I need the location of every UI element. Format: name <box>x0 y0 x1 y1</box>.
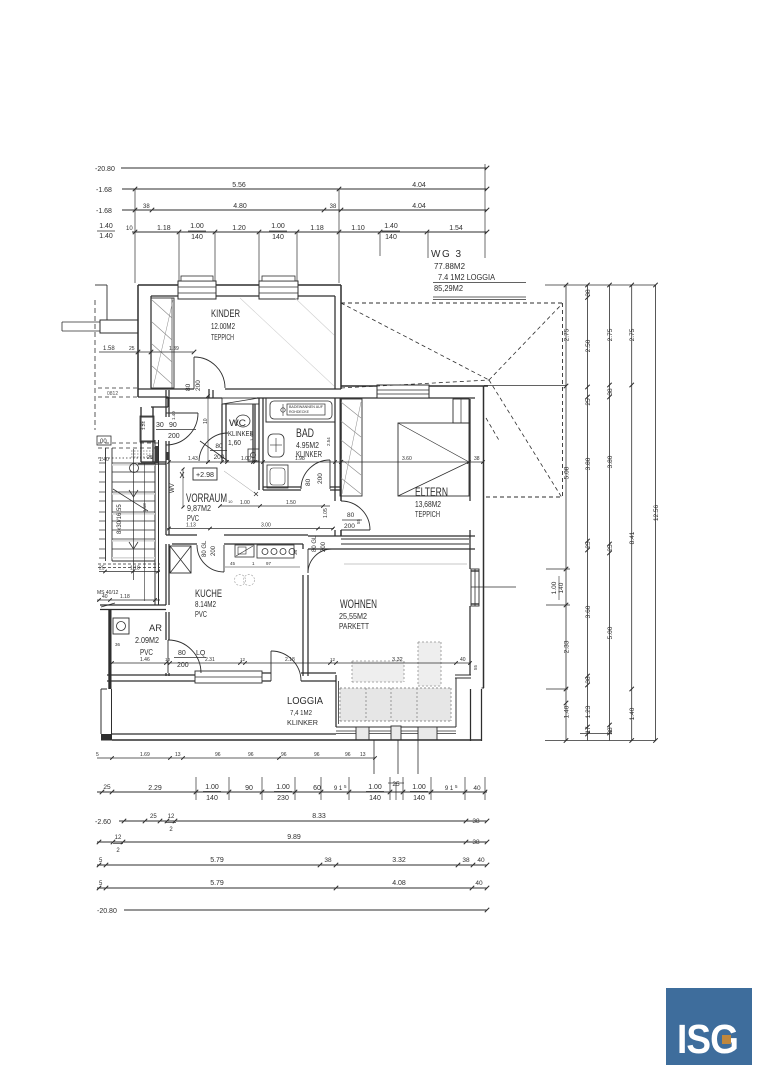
svg-text:1.24: 1.24 <box>141 421 146 430</box>
svg-text:ROHDECKE: ROHDECKE <box>289 410 310 414</box>
svg-text:MS 40/12: MS 40/12 <box>97 590 119 596</box>
svg-text:40: 40 <box>102 594 108 600</box>
svg-text:40: 40 <box>460 657 466 663</box>
svg-text:230: 230 <box>277 795 289 802</box>
svg-text:38: 38 <box>324 857 332 864</box>
svg-text:TEPPICH: TEPPICH <box>211 333 234 342</box>
svg-text:38: 38 <box>474 456 480 462</box>
svg-text:80: 80 <box>215 443 223 450</box>
svg-text:1.40: 1.40 <box>171 411 176 420</box>
svg-text:1 18: 1 18 <box>130 566 140 572</box>
svg-text:140: 140 <box>272 234 284 241</box>
svg-text:1.39: 1.39 <box>169 346 179 352</box>
svg-text:12.00M2: 12.00M2 <box>211 322 235 331</box>
svg-text:25: 25 <box>147 455 153 461</box>
svg-text:2.75: 2.75 <box>629 328 636 341</box>
svg-text:4.04: 4.04 <box>412 203 426 210</box>
svg-text:38: 38 <box>472 818 480 825</box>
svg-text:KINDER: KINDER <box>211 308 240 320</box>
svg-text:AR: AR <box>149 623 162 634</box>
svg-text:38: 38 <box>472 839 480 846</box>
svg-text:80 GL: 80 GL <box>202 540 208 557</box>
svg-text:80: 80 <box>178 650 186 657</box>
svg-text:WOHNEN: WOHNEN <box>340 599 377 611</box>
svg-text:1.05: 1.05 <box>323 508 329 518</box>
svg-text:4.08: 4.08 <box>392 880 406 887</box>
svg-text:1.00: 1.00 <box>368 784 382 791</box>
svg-text:3.80: 3.80 <box>585 457 592 470</box>
svg-text:2.75: 2.75 <box>564 328 571 341</box>
svg-text:-1.68: -1.68 <box>96 208 112 215</box>
svg-text:7.4 1M2 LOGGIA: 7.4 1M2 LOGGIA <box>438 273 496 282</box>
svg-text:-20.80: -20.80 <box>97 908 117 915</box>
svg-text:38: 38 <box>330 204 337 210</box>
svg-text:40: 40 <box>477 857 485 864</box>
svg-text:90: 90 <box>169 422 177 429</box>
svg-text:60: 60 <box>313 785 321 792</box>
svg-text:140: 140 <box>413 795 425 802</box>
svg-text:55: 55 <box>356 518 361 524</box>
svg-text:25: 25 <box>129 346 135 352</box>
svg-text:3.32: 3.32 <box>392 657 403 663</box>
svg-text:1.40: 1.40 <box>99 223 113 230</box>
svg-text:3.60: 3.60 <box>585 605 592 618</box>
svg-text:BAD: BAD <box>296 426 314 440</box>
svg-text:-20.80: -20.80 <box>95 166 115 173</box>
svg-text:-2.60: -2.60 <box>95 819 111 826</box>
svg-text:140: 140 <box>385 234 397 241</box>
svg-text:1.58: 1.58 <box>103 346 115 352</box>
svg-text:55: 55 <box>473 664 478 670</box>
svg-text:85,29M2: 85,29M2 <box>434 284 464 293</box>
svg-text:34: 34 <box>293 549 298 555</box>
svg-text:1.00: 1.00 <box>276 784 290 791</box>
svg-text:10: 10 <box>165 657 171 662</box>
svg-text:38: 38 <box>462 857 470 864</box>
svg-text:200: 200 <box>168 433 180 440</box>
svg-text:38: 38 <box>585 289 592 297</box>
svg-text:140: 140 <box>369 795 381 802</box>
svg-text:1.54: 1.54 <box>449 225 463 232</box>
svg-text:3.00: 3.00 <box>261 523 271 529</box>
svg-text:25,55M2: 25,55M2 <box>339 611 367 621</box>
svg-text:5.79: 5.79 <box>210 880 224 887</box>
svg-text:40: 40 <box>475 880 483 887</box>
svg-text:2.33: 2.33 <box>564 640 571 653</box>
svg-text:1.40: 1.40 <box>99 457 109 463</box>
svg-text:1.18: 1.18 <box>157 225 171 232</box>
svg-text:2.18: 2.18 <box>285 657 295 663</box>
svg-text:10: 10 <box>203 418 209 424</box>
svg-text:1.40: 1.40 <box>629 707 636 720</box>
svg-text:36: 36 <box>115 642 121 647</box>
svg-text:13: 13 <box>175 752 181 758</box>
svg-text:96: 96 <box>248 752 254 758</box>
svg-text:0812: 0812 <box>107 391 118 397</box>
svg-text:96: 96 <box>314 752 320 758</box>
svg-text:5.79: 5.79 <box>210 857 224 864</box>
svg-text:2.09M2: 2.09M2 <box>135 635 159 645</box>
svg-text:80 GL: 80 GL <box>312 535 318 552</box>
svg-text:13: 13 <box>360 752 366 758</box>
svg-text:3.60: 3.60 <box>402 456 412 462</box>
svg-text:12.56: 12.56 <box>653 504 660 521</box>
svg-text:1.43: 1.43 <box>188 456 198 462</box>
svg-text:45: 45 <box>230 561 236 566</box>
svg-text:PVC: PVC <box>187 513 199 523</box>
svg-text:2.31: 2.31 <box>205 657 215 663</box>
svg-text:13,68M2: 13,68M2 <box>415 499 441 509</box>
svg-text:9 1: 9 1 <box>445 786 454 792</box>
svg-text:1.00: 1.00 <box>271 223 285 230</box>
svg-text:1.13: 1.13 <box>186 523 196 529</box>
svg-text:25: 25 <box>103 784 111 791</box>
svg-text:KUCHE: KUCHE <box>195 588 222 600</box>
svg-text:8x30/16,55: 8x30/16,55 <box>117 504 123 534</box>
svg-text:1.18: 1.18 <box>120 594 130 600</box>
svg-text:200: 200 <box>211 545 217 556</box>
svg-text:-1.68: -1.68 <box>96 187 112 194</box>
svg-text:1.00: 1.00 <box>412 784 426 791</box>
svg-text:TEPPICH: TEPPICH <box>415 509 440 519</box>
svg-text:2.29: 2.29 <box>148 785 162 792</box>
svg-text:WG 3: WG 3 <box>431 249 463 260</box>
svg-text:BADEWANNEN AUF: BADEWANNEN AUF <box>289 405 323 409</box>
svg-text:1.40: 1.40 <box>384 223 398 230</box>
svg-text:1.46: 1.46 <box>140 657 150 663</box>
svg-text:10: 10 <box>228 499 233 504</box>
svg-text:LQ: LQ <box>196 650 206 657</box>
svg-text:1.20: 1.20 <box>232 225 246 232</box>
svg-text:12: 12 <box>240 657 246 662</box>
svg-text:38: 38 <box>143 204 150 210</box>
svg-text:1.50: 1.50 <box>286 500 296 506</box>
svg-text:10: 10 <box>126 226 133 232</box>
svg-text:+2.98: +2.98 <box>196 470 214 479</box>
svg-text:KLINKER: KLINKER <box>287 718 319 727</box>
svg-text:1.00: 1.00 <box>240 500 250 506</box>
svg-text:5: 5 <box>96 752 99 758</box>
svg-text:96: 96 <box>281 752 287 758</box>
svg-text:1.40: 1.40 <box>250 432 255 441</box>
svg-text:80: 80 <box>305 478 312 486</box>
svg-text:77.88M2: 77.88M2 <box>434 262 466 271</box>
svg-text:3.32: 3.32 <box>392 857 406 864</box>
svg-text:96: 96 <box>345 752 351 758</box>
svg-text:9 1: 9 1 <box>334 786 343 792</box>
svg-text:4.04: 4.04 <box>412 182 426 189</box>
svg-text:ELTERN: ELTERN <box>415 485 448 499</box>
svg-text:1.40: 1.40 <box>564 705 571 718</box>
svg-text:25: 25 <box>150 814 157 820</box>
svg-text:200: 200 <box>317 473 324 484</box>
svg-text:5.56: 5.56 <box>232 182 246 189</box>
svg-text:7,4 1M2: 7,4 1M2 <box>290 708 312 717</box>
svg-text:40: 40 <box>473 785 481 792</box>
svg-text:97: 97 <box>266 561 272 566</box>
svg-text:12: 12 <box>115 835 122 841</box>
svg-text:140: 140 <box>206 795 218 802</box>
svg-text:2.75: 2.75 <box>607 328 614 341</box>
svg-text:25: 25 <box>99 566 105 572</box>
svg-text:8.33: 8.33 <box>312 813 326 820</box>
svg-text:5.00: 5.00 <box>607 626 614 639</box>
svg-text:PVC: PVC <box>140 647 153 657</box>
svg-text:8.41: 8.41 <box>629 531 636 544</box>
svg-text:1,60: 1,60 <box>228 440 241 447</box>
svg-text:140: 140 <box>191 234 203 241</box>
svg-text:90: 90 <box>245 785 253 792</box>
svg-text:1.23: 1.23 <box>585 705 592 718</box>
svg-text:80: 80 <box>185 383 192 391</box>
svg-text:1.10: 1.10 <box>351 225 365 232</box>
svg-text:4.80: 4.80 <box>233 203 247 210</box>
svg-text:1.00: 1.00 <box>205 784 219 791</box>
svg-text:96: 96 <box>215 752 221 758</box>
svg-text:PVC: PVC <box>195 610 207 619</box>
svg-text:12: 12 <box>330 657 336 662</box>
svg-text:3.80: 3.80 <box>607 455 614 468</box>
svg-text:1.00: 1.00 <box>551 581 558 594</box>
svg-text:1.18: 1.18 <box>310 225 324 232</box>
svg-text:200: 200 <box>195 380 202 391</box>
svg-text:PARKETT: PARKETT <box>339 621 369 631</box>
svg-text:1.00: 1.00 <box>241 456 251 462</box>
svg-text:LOGGIA: LOGGIA <box>287 696 323 707</box>
svg-text:00: 00 <box>100 439 107 445</box>
svg-text:38: 38 <box>607 388 614 396</box>
svg-text:8.14M2: 8.14M2 <box>195 600 216 609</box>
svg-text:2.54: 2.54 <box>326 437 331 446</box>
svg-text:5.08: 5.08 <box>564 466 571 479</box>
svg-text:1.98: 1.98 <box>295 456 305 462</box>
svg-text:1.00: 1.00 <box>190 223 204 230</box>
svg-text:WC: WC <box>229 418 247 428</box>
svg-text:80: 80 <box>347 512 355 519</box>
svg-text:WV: WV <box>170 483 176 493</box>
svg-text:30: 30 <box>156 422 164 429</box>
svg-text:1.69: 1.69 <box>140 752 150 758</box>
svg-text:200: 200 <box>344 523 355 530</box>
svg-text:2.50: 2.50 <box>585 339 592 352</box>
svg-text:9.89: 9.89 <box>287 834 301 841</box>
svg-text:9,87M2: 9,87M2 <box>187 503 211 513</box>
svg-text:200: 200 <box>321 541 327 552</box>
svg-text:1.40: 1.40 <box>99 233 113 240</box>
